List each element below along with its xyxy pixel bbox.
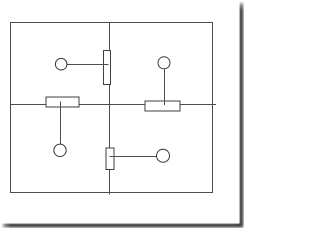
node A	[55, 58, 67, 70]
resistor R1	[104, 51, 111, 85]
wire R3 to node C	[60, 102, 62, 146]
resistor R4	[106, 148, 114, 170]
resistor R3	[46, 97, 79, 107]
node C	[54, 144, 66, 156]
node B	[158, 57, 170, 69]
wire R2 to node B	[164, 68, 166, 106]
wire R1 to node A	[66, 64, 109, 66]
wire R4 to node D	[110, 156, 159, 158]
enclosure outline	[11, 23, 213, 193]
wire: horizontal bus	[11, 104, 217, 106]
resistor R2	[145, 101, 180, 111]
wire: vertical bus	[109, 23, 111, 195]
node D	[157, 149, 170, 162]
